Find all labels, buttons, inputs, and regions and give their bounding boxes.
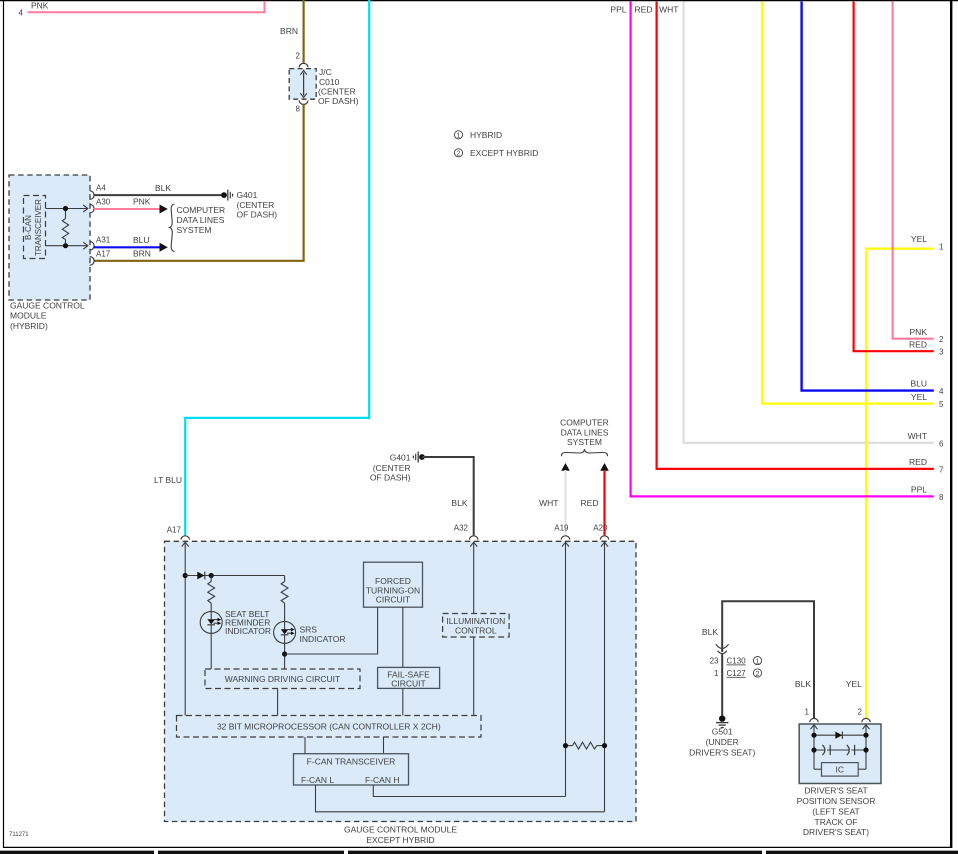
- internal wire from pin A17 down to 32-bit microprocessor: [182, 542, 189, 716]
- internal wire pin A19 down to F-CAN H: [562, 542, 569, 797]
- svg-text:A17: A17: [96, 249, 111, 258]
- wire YEL pin 1 down to seat position sensor pin 2: [866, 234, 944, 719]
- junction node on A30 line: [63, 206, 68, 211]
- wire BRN from J/C C010 pin 8 to A17 of hybrid gauge control module: [94, 104, 304, 261]
- svg-text:INDICATOR: INDICATOR: [225, 626, 271, 636]
- svg-text:PNK: PNK: [133, 197, 151, 207]
- sensor diode row: [814, 732, 866, 739]
- arrow up to computer data lines (A19): [561, 463, 570, 471]
- svg-text:BLK: BLK: [155, 183, 171, 193]
- brace for computer data lines system (center, horizontal): [562, 449, 608, 456]
- svg-text:PNK: PNK: [31, 0, 49, 10]
- svg-text:2: 2: [457, 151, 461, 158]
- pin A20 connector arc: [600, 536, 608, 540]
- svg-text:A20: A20: [593, 524, 608, 533]
- internal wire from fail-safe circuit to 32-bit microprocessor: [402, 688, 404, 715]
- svg-text:WHT: WHT: [539, 498, 558, 508]
- svg-text:IC: IC: [836, 764, 845, 774]
- svg-text:2: 2: [756, 671, 760, 678]
- svg-text:POSITION SENSOR: POSITION SENSOR: [797, 796, 876, 806]
- svg-text:A32: A32: [454, 524, 469, 533]
- gauge control module (except hybrid) box: [165, 541, 637, 845]
- svg-text:2: 2: [858, 707, 863, 716]
- svg-text:1: 1: [939, 243, 944, 252]
- wire LT BLU from top to A17 of except-hybrid module: [154, 0, 369, 535]
- svg-text:8: 8: [939, 493, 944, 502]
- ground G401 (CENTER OF DASH) for A4: [221, 190, 277, 220]
- svg-text:CONTROL: CONTROL: [455, 626, 497, 636]
- note legend 1: HYBRID: [454, 130, 502, 140]
- svg-text:CIRCUIT: CIRCUIT: [391, 678, 425, 688]
- svg-text:ILLUMINATION: ILLUMINATION: [446, 616, 505, 626]
- svg-text:G401: G401: [390, 453, 411, 463]
- label A17 BRN on hybrid module: [96, 249, 151, 259]
- svg-text:LT BLU: LT BLU: [154, 475, 182, 485]
- svg-text:C010: C010: [319, 77, 340, 87]
- driver's seat position sensor box: [797, 724, 881, 837]
- internal wire from SRS junction to forced turning-on circuit: [285, 607, 378, 654]
- svg-text:1: 1: [805, 707, 810, 716]
- internal wire F-CAN L to A20 line: [316, 785, 605, 812]
- wire BLU from top to pin 4: [802, 2, 944, 397]
- svg-text:A30: A30: [96, 197, 111, 206]
- svg-text:HYBRID: HYBRID: [470, 130, 502, 140]
- internal wire pin A20 down to F-CAN L: [601, 542, 608, 812]
- svg-text:7: 7: [939, 465, 944, 474]
- svg-text:DATA LINES: DATA LINES: [561, 427, 609, 437]
- svg-text:A19: A19: [554, 524, 569, 533]
- svg-text:32 BIT MICROPROCESSOR (CAN CON: 32 BIT MICROPROCESSOR (CAN CONTROLLER X …: [217, 722, 441, 732]
- wire RED from top to pin 3: [854, 2, 944, 357]
- resistor R1 (seat belt indicator branch): [208, 576, 215, 612]
- svg-text:SYSTEM: SYSTEM: [177, 225, 212, 235]
- pin A32 connector arc: [470, 536, 478, 540]
- svg-text:G401: G401: [237, 190, 258, 200]
- wire BLU from A31 to computer data lines system: [94, 235, 168, 252]
- wire WHT from top to pin 6: [659, 2, 944, 449]
- wire RED from A20 to computer data lines arrow: [581, 470, 609, 535]
- pin A4 connector arc on hybrid module: [90, 191, 94, 200]
- svg-text:(CENTER: (CENTER: [318, 86, 356, 96]
- svg-text:RED: RED: [909, 457, 927, 467]
- gauge control module (hybrid) box: [9, 175, 90, 331]
- svg-text:G501: G501: [712, 727, 733, 737]
- svg-text:PPL: PPL: [911, 485, 927, 495]
- svg-text:TRANSCEIVER: TRANSCEIVER: [34, 199, 43, 256]
- sensor pin 1 connector arc: [810, 718, 818, 722]
- fail-safe circuit block: [378, 667, 440, 688]
- forced turning-on circuit block: [364, 562, 423, 607]
- internal wire from A17 junction to indicator branches: [185, 575, 284, 577]
- svg-text:1: 1: [756, 658, 760, 665]
- svg-text:BLK: BLK: [451, 498, 467, 508]
- pin A19 connector arc: [561, 536, 569, 540]
- wire BLK from A4 to ground G401: [94, 183, 222, 195]
- sensor pin 2 connector arc: [862, 718, 870, 722]
- IC block inside sensor: [814, 763, 866, 777]
- junction node at seat belt branch: [209, 573, 214, 578]
- termination resistor inside hybrid module: [62, 209, 68, 246]
- brace for computer data lines system (left): [170, 204, 175, 252]
- wire PNK from A30 to computer data lines system: [94, 197, 168, 214]
- junction node A19/resistor: [563, 743, 568, 748]
- svg-text:A4: A4: [96, 184, 106, 193]
- svg-text:BRN: BRN: [280, 26, 298, 36]
- wire BLK from G401 to pin A32: [422, 457, 474, 535]
- svg-text:YEL: YEL: [911, 392, 927, 402]
- svg-text:(HYBRID): (HYBRID): [10, 321, 48, 331]
- svg-text:SRS: SRS: [300, 625, 318, 635]
- LED SRS indicator: [274, 621, 346, 669]
- svg-text:PPL: PPL: [610, 5, 626, 15]
- illumination control block: [443, 614, 510, 638]
- svg-text:(LEFT SEAT: (LEFT SEAT: [812, 806, 859, 816]
- sensor internal wire pin 2: [863, 725, 870, 770]
- svg-text:F-CAN H: F-CAN H: [365, 775, 399, 785]
- svg-text:TRACK OF: TRACK OF: [815, 817, 858, 827]
- 32 bit microprocessor block: [177, 716, 482, 738]
- diode D1 on indicator feed: [197, 572, 205, 580]
- wire PNK from top to pin 2: [893, 2, 944, 345]
- junction node at SRS branch to forced turning-on line: [282, 651, 287, 656]
- svg-text:F-CAN L: F-CAN L: [301, 775, 334, 785]
- svg-text:OF DASH): OF DASH): [318, 96, 359, 106]
- svg-text:EXCEPT HYBRID: EXCEPT HYBRID: [366, 835, 434, 845]
- svg-text:2: 2: [296, 52, 301, 61]
- svg-text:J/C: J/C: [319, 67, 332, 77]
- internal wire from warning driving circuit to 32-bit microprocessor: [277, 689, 279, 716]
- svg-text:EXCEPT HYBRID: EXCEPT HYBRID: [470, 148, 538, 158]
- arrow up to computer data lines (A20): [600, 463, 609, 471]
- svg-text:BLK: BLK: [795, 679, 811, 689]
- internal wire from pin A32 to illumination control: [470, 542, 477, 614]
- pin A31 connector arc: [90, 242, 94, 251]
- svg-text:GAUGE CONTROL: GAUGE CONTROL: [10, 300, 85, 310]
- svg-text:YEL: YEL: [911, 234, 927, 244]
- svg-text:DATA LINES: DATA LINES: [177, 215, 225, 225]
- label COMPUTER DATA LINES SYSTEM (center): [560, 417, 609, 447]
- svg-text:OF DASH): OF DASH): [237, 209, 278, 219]
- svg-text:8: 8: [296, 105, 301, 114]
- svg-text:RED: RED: [581, 498, 599, 508]
- svg-text:PNK: PNK: [910, 327, 928, 337]
- junction connector J/C C010 (CENTER OF DASH): [289, 63, 359, 113]
- svg-text:(UNDER: (UNDER: [706, 737, 739, 747]
- svg-text:F-CAN TRANSCEIVER: F-CAN TRANSCEIVER: [307, 757, 396, 767]
- svg-text:BLU: BLU: [133, 235, 150, 245]
- svg-text:4: 4: [19, 9, 24, 18]
- svg-text:OF DASH): OF DASH): [370, 472, 411, 482]
- svg-text:(CENTER: (CENTER: [237, 200, 275, 210]
- sensor internal wire pin 1: [811, 725, 818, 770]
- warning driving circuit block: [205, 669, 360, 689]
- internal wire from illumination control to 32-bit microprocessor: [473, 637, 475, 716]
- svg-text:5: 5: [939, 400, 944, 409]
- inline connector C130 / C127: [710, 644, 762, 678]
- ground G401 (CENTER OF DASH) for A32: [370, 452, 425, 483]
- svg-text:YEL: YEL: [846, 679, 862, 689]
- LED seat belt reminder indicator: [200, 609, 271, 669]
- svg-text:RED: RED: [635, 5, 653, 15]
- svg-text:COMPUTER: COMPUTER: [560, 417, 609, 427]
- svg-text:4: 4: [939, 387, 944, 396]
- pin A17 connector arc: [90, 257, 94, 266]
- svg-text:CIRCUIT: CIRCUIT: [376, 595, 410, 605]
- svg-text:BLK: BLK: [702, 627, 718, 637]
- svg-text:WHT: WHT: [908, 431, 927, 441]
- ground G501 (UNDER DRIVER'S SEAT): [689, 715, 755, 757]
- wire BLK from seat sensor pin 1 up and over to C130: [702, 601, 814, 719]
- svg-text:23: 23: [710, 657, 719, 666]
- internal wire from B-CAN transceiver to pin A30 with arrowhead: [46, 205, 88, 212]
- svg-text:DRIVER'S SEAT: DRIVER'S SEAT: [804, 786, 867, 796]
- sensor capacitor row: [814, 745, 866, 755]
- wire PPL from top to pin 8: [610, 2, 944, 502]
- junction nodes capacitor row: [811, 747, 816, 752]
- bottom page-edge bar: [0, 851, 958, 854]
- svg-text:INDICATOR: INDICATOR: [300, 634, 346, 644]
- svg-text:B-CAN: B-CAN: [24, 215, 33, 240]
- svg-text:WHT: WHT: [659, 5, 678, 15]
- label COMPUTER DATA LINES SYSTEM (left): [177, 205, 226, 235]
- wire WHT from A19 to computer data lines arrow: [539, 470, 569, 535]
- wire RED from top to pin 7: [635, 2, 944, 475]
- svg-text:BLU: BLU: [910, 378, 927, 388]
- wire BLK from C127 to ground G501: [721, 654, 723, 716]
- pin A30 connector arc: [90, 204, 94, 213]
- internal wire from forced turning-on circuit to fail-safe circuit: [402, 607, 404, 667]
- svg-text:MODULE: MODULE: [10, 311, 47, 321]
- svg-text:A31: A31: [96, 236, 111, 245]
- wire YEL from top to pin 5: [762, 2, 944, 410]
- CAN termination resistor R3 between A19 and A20 lines: [566, 742, 605, 749]
- svg-text:COMPUTER: COMPUTER: [177, 205, 226, 215]
- resistor R2 (SRS indicator branch): [281, 576, 288, 622]
- wire BRN from top to J/C C010 pin 2: [280, 0, 304, 64]
- internal wire 32-bit microprocessor to F-CAN transceiver (left): [304, 737, 306, 754]
- junction node A20/resistor: [602, 743, 607, 748]
- note legend 2: EXCEPT HYBRID: [454, 148, 538, 158]
- label YEL at seat sensor pin 2: [846, 679, 863, 716]
- svg-text:711271: 711271: [9, 832, 29, 838]
- junction node on A31 line: [63, 243, 68, 248]
- svg-text:1: 1: [457, 133, 461, 140]
- internal wire F-CAN H to A19 line: [373, 785, 565, 797]
- internal wire 32-bit microprocessor to F-CAN transceiver (right): [383, 737, 385, 754]
- svg-text:WARNING DRIVING CIRCUIT: WARNING DRIVING CIRCUIT: [225, 674, 340, 684]
- wire PNK pin 4 (top left): [19, 0, 265, 17]
- svg-text:DRIVER'S SEAT): DRIVER'S SEAT): [803, 827, 869, 837]
- svg-text:GAUGE CONTROL MODULE: GAUGE CONTROL MODULE: [344, 825, 457, 835]
- svg-text:BRN: BRN: [133, 249, 151, 259]
- junction nodes diode row: [811, 733, 816, 738]
- svg-text:1: 1: [714, 669, 719, 678]
- pin A17 connector arc on module top: [181, 536, 189, 540]
- svg-text:3: 3: [939, 348, 944, 357]
- F-CAN transceiver block: [294, 754, 409, 785]
- internal wire from B-CAN transceiver to pin A31 with arrowhead: [46, 242, 88, 249]
- svg-text:SYSTEM: SYSTEM: [567, 437, 602, 447]
- svg-text:6: 6: [939, 439, 944, 448]
- svg-text:A17: A17: [167, 526, 182, 535]
- svg-text:DRIVER'S SEAT): DRIVER'S SEAT): [689, 747, 755, 757]
- svg-text:2: 2: [939, 335, 944, 344]
- svg-text:C130: C130: [727, 657, 747, 666]
- svg-text:(CENTER: (CENTER: [373, 463, 411, 473]
- B-CAN transceiver block inside hybrid module: [24, 196, 46, 259]
- svg-text:RED: RED: [909, 339, 927, 349]
- svg-text:C127: C127: [727, 669, 747, 678]
- junction node on A17 internal line: [183, 573, 188, 578]
